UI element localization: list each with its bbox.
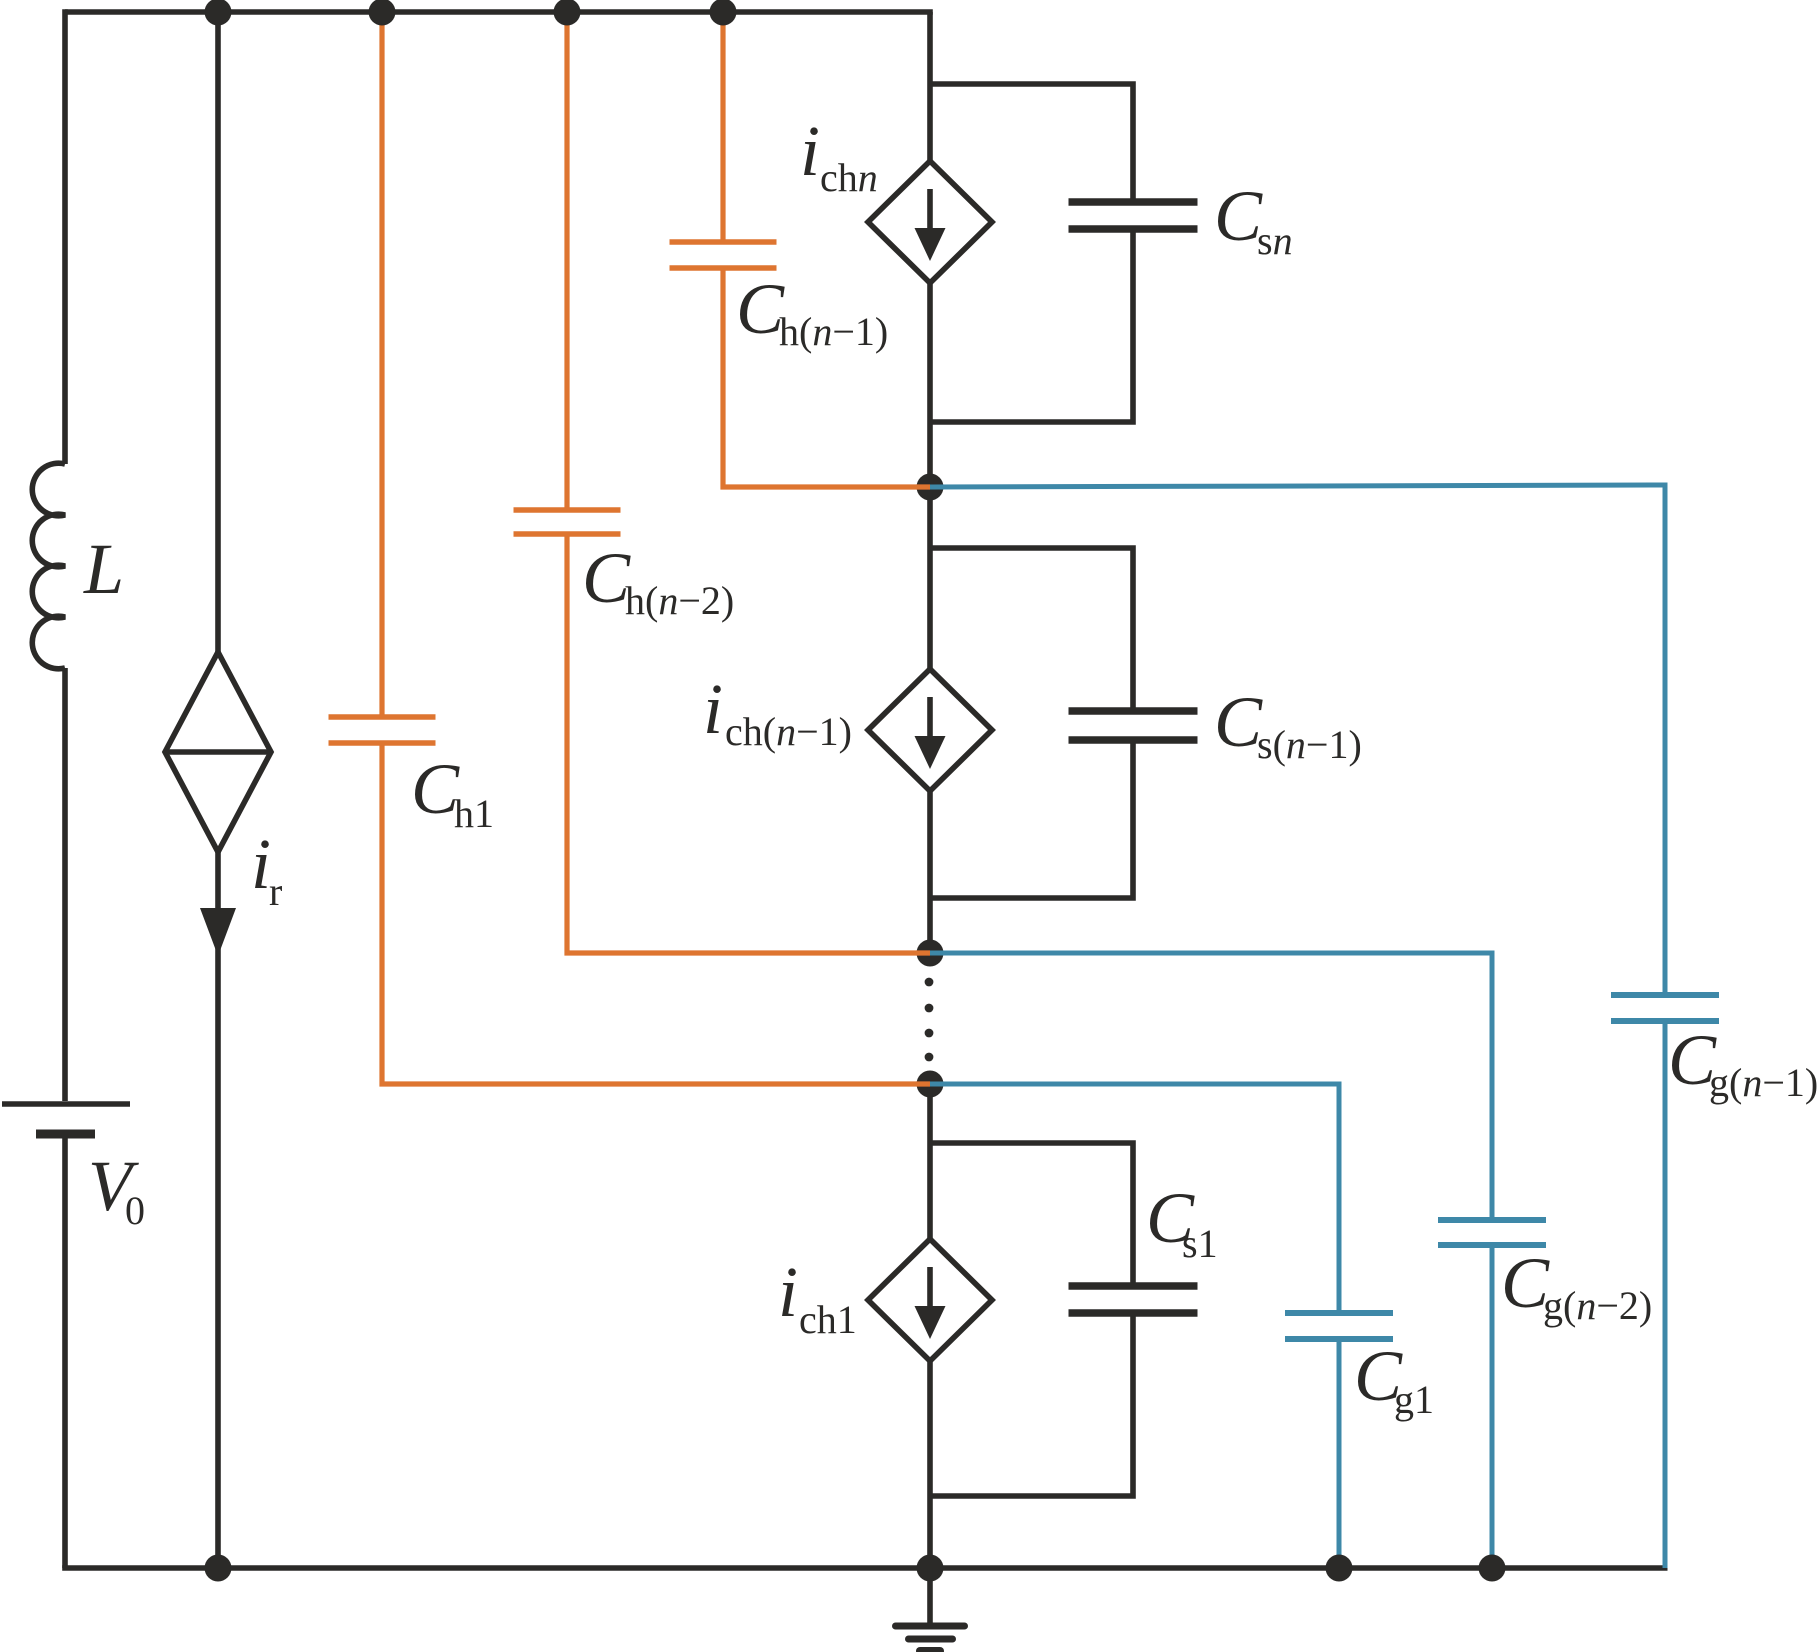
svg-text:chn: chn [820, 155, 878, 200]
wire Cg(n-2) branch [930, 953, 1492, 1568]
battery V0 negative plate [36, 1130, 95, 1139]
wire Csn loop [930, 84, 1133, 422]
svg-text:h(n−1): h(n−1) [779, 309, 888, 354]
capacitor Ch(n-1) [670, 239, 777, 245]
wire Ch(n-1) branch [723, 12, 930, 487]
capacitor Cg(n-2) [1438, 1217, 1546, 1223]
arrow ir current direction [200, 908, 236, 956]
svg-text:i: i [800, 111, 820, 191]
capacitor Csn [1069, 198, 1198, 206]
junction bottom wire at Cg(n-2) branch [1479, 1555, 1506, 1582]
capacitor Cg1 [1285, 1310, 1393, 1316]
wire main branch below ich(n-1) [927, 791, 933, 953]
svg-text:0: 0 [125, 1188, 145, 1233]
svg-text:C: C [1214, 176, 1263, 256]
wire main branch to ichn-1 [927, 487, 933, 669]
junction top wire at ir branch [205, 0, 232, 26]
svg-text:C: C [411, 749, 460, 829]
wire main branch to ich1 [927, 1084, 933, 1240]
svg-text:C: C [736, 269, 785, 349]
wire main branch top segment [927, 12, 933, 161]
junction bottom wire at main branch [917, 1555, 944, 1582]
wire Ch1 branch [382, 12, 930, 1084]
capacitor Cg(n-1) [1611, 992, 1719, 998]
inductor L [32, 463, 65, 669]
svg-text:h(n−2): h(n−2) [625, 578, 734, 623]
svg-text:i: i [778, 1252, 798, 1332]
wire bottom bus [62, 1565, 1667, 1571]
wire Cg1 branch [930, 1084, 1339, 1568]
svg-text:C: C [1214, 682, 1263, 762]
wire left branch lower segment [62, 1138, 68, 1568]
junction top wire at Ch1 branch [369, 0, 396, 26]
svg-text:h1: h1 [454, 791, 494, 836]
ellipsis continuation dots [925, 978, 934, 987]
svg-text:s(n−1): s(n−1) [1257, 722, 1362, 767]
svg-text:ch1: ch1 [799, 1297, 857, 1342]
junction bottom wire at ir branch [205, 1555, 232, 1582]
svg-text:L: L [83, 529, 124, 609]
wire main branch below ichn [927, 283, 933, 487]
capacitor Cs(n-1) [1069, 707, 1198, 715]
svg-text:r: r [269, 869, 282, 914]
svg-text:sn: sn [1257, 218, 1293, 263]
junction top wire at Ch(n-1) branch [710, 0, 737, 26]
svg-text:s1: s1 [1182, 1221, 1218, 1266]
wire top bus [65, 9, 933, 15]
capacitor Cs1 [1069, 1282, 1198, 1290]
controlled source ir diamond [165, 652, 271, 852]
wire Cg(n-1) branch [930, 485, 1665, 1568]
battery V0 positive plate [2, 1101, 130, 1107]
wire ir branch upper [215, 12, 221, 653]
current source ich(n-1) [868, 669, 992, 791]
wire ir branch lower [215, 852, 221, 1568]
svg-text:ch(n−1): ch(n−1) [725, 709, 852, 754]
wire main branch below ich1 [927, 1360, 933, 1568]
node above cell 1 [917, 1071, 944, 1098]
svg-text:g(n−1): g(n−1) [1709, 1060, 1818, 1105]
svg-text:i: i [703, 669, 723, 749]
current source ich1 [868, 1239, 992, 1361]
wire Ch(n-2) branch [567, 12, 930, 953]
svg-text:C: C [582, 538, 631, 618]
wire left branch between inductor and battery [62, 668, 68, 1101]
capacitor Ch1 [329, 714, 436, 720]
ground [927, 1568, 933, 1626]
wire Cs1 loop [930, 1143, 1133, 1496]
wire left branch upper segment [62, 9, 68, 464]
junction bottom wire at Cg1 branch [1326, 1555, 1353, 1582]
node between cell n-1 and dotted section [917, 940, 944, 967]
svg-text:i: i [251, 824, 271, 904]
svg-text:g1: g1 [1394, 1377, 1434, 1422]
wire Cs(n-1) loop [930, 548, 1133, 898]
node between cell n and cell n-1 [917, 474, 944, 501]
svg-text:g(n−2): g(n−2) [1543, 1283, 1652, 1328]
junction top wire at Ch(n-2) branch [554, 0, 581, 26]
current source ichn [868, 161, 992, 283]
capacitor Ch(n-2) [514, 507, 621, 513]
